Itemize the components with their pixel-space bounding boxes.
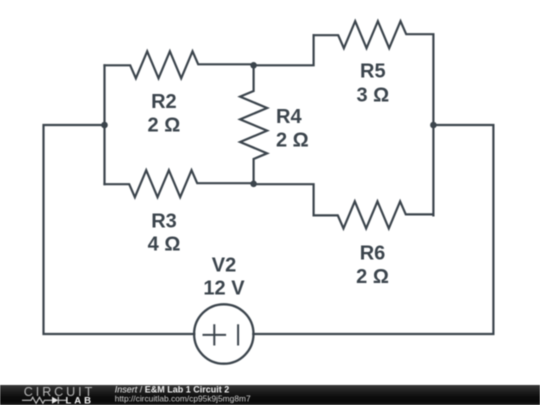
wire right inner vertical bbox=[432, 35, 434, 215]
node junction dot left bbox=[101, 122, 108, 129]
CircuitLab logo zigzag resistor icon bbox=[22, 397, 52, 403]
wire left outer loop bbox=[44, 125, 195, 334]
svg-text:12 V: 12 V bbox=[203, 277, 245, 299]
svg-text:V2: V2 bbox=[212, 255, 236, 277]
V2 plus sign bbox=[204, 325, 226, 344]
wire left inner vertical bbox=[103, 65, 105, 184]
wire R3 node to R6 bbox=[254, 184, 314, 215]
svg-text:2 Ω: 2 Ω bbox=[276, 129, 309, 151]
resistor R6 bbox=[314, 201, 434, 228]
svg-text:http://circuitlab.com/cp95k9j5: http://circuitlab.com/cp95k9j5mg8m7 bbox=[115, 393, 251, 403]
voltage source V2 bbox=[194, 304, 253, 363]
wire R2 node to R5 bbox=[254, 35, 314, 65]
svg-text:R2: R2 bbox=[151, 91, 177, 113]
svg-text:R3: R3 bbox=[151, 210, 177, 232]
svg-text:R5: R5 bbox=[360, 61, 386, 83]
svg-text:4 Ω: 4 Ω bbox=[148, 234, 181, 256]
resistor R2 bbox=[105, 51, 254, 78]
svg-text:R4: R4 bbox=[276, 106, 302, 128]
svg-text:3 Ω: 3 Ω bbox=[356, 84, 389, 106]
svg-text:LAB: LAB bbox=[66, 395, 95, 405]
footer bar bbox=[0, 385, 540, 405]
resistor R3 bbox=[105, 170, 254, 197]
CircuitLab logo diode icon bbox=[52, 396, 58, 403]
svg-text:2 Ω: 2 Ω bbox=[148, 115, 181, 137]
node junction dot top of R4 bbox=[250, 62, 257, 69]
svg-text:R6: R6 bbox=[360, 243, 386, 265]
wire right outer loop bbox=[253, 125, 493, 334]
node junction dot right bbox=[430, 122, 437, 129]
resistor R5 bbox=[314, 21, 434, 48]
resistor R4 bbox=[240, 65, 267, 184]
svg-text:2 Ω: 2 Ω bbox=[356, 266, 389, 288]
V2 minus bar bbox=[237, 325, 239, 344]
node junction dot bottom of R4 bbox=[250, 181, 257, 188]
